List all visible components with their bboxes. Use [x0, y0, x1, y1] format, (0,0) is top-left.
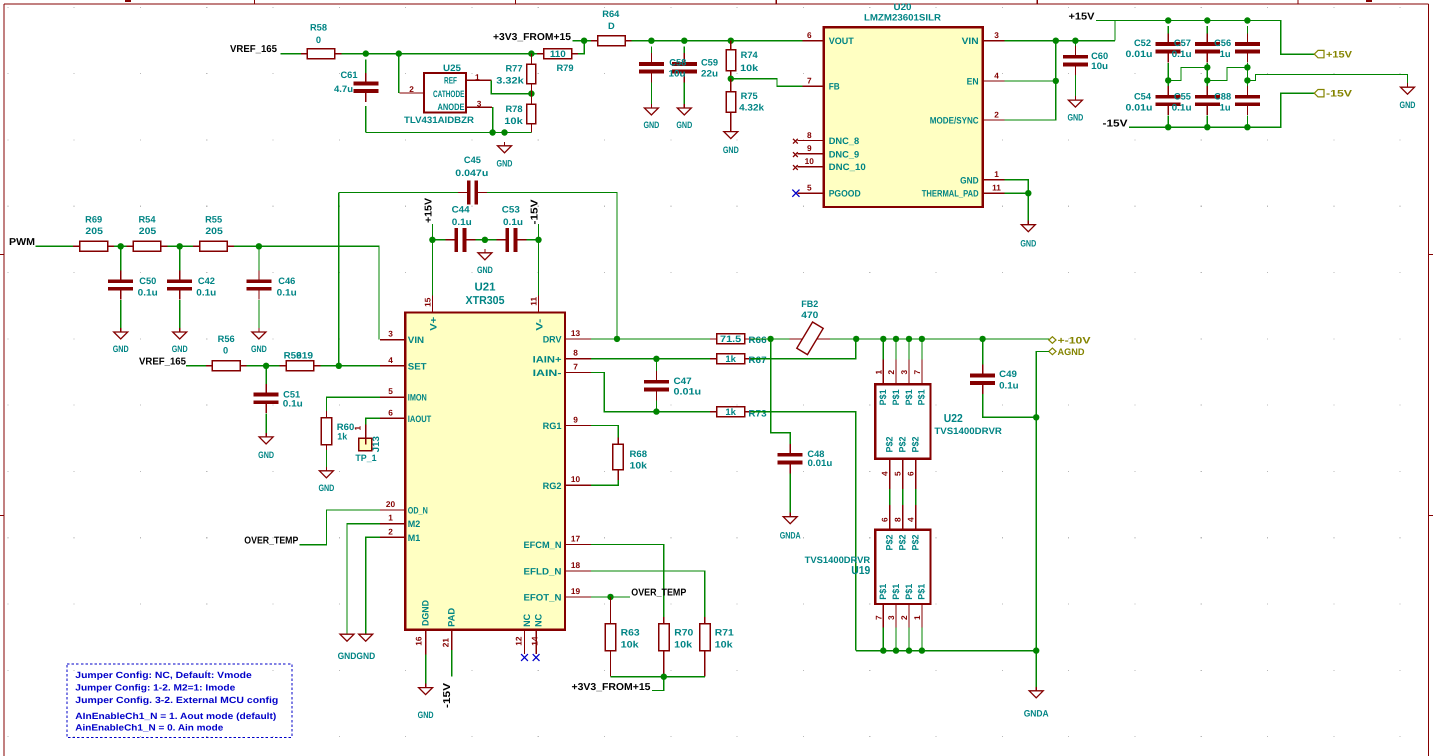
wire C53 out [527, 239, 539, 241]
wire FB wire [731, 79, 803, 87]
svg-text:0.047u: 0.047u [455, 168, 488, 178]
svg-text:9: 9 [807, 143, 812, 153]
svg-text:TVS1400DRVR: TVS1400DRVR [934, 426, 1002, 436]
wire R79 up to 3V3 [578, 40, 584, 54]
wire gnd z1 [1168, 67, 1207, 80]
svg-text:+15V: +15V [423, 198, 434, 223]
svg-text:0.1u: 0.1u [999, 380, 1019, 390]
svg-text:0.01u: 0.01u [1126, 49, 1153, 59]
node DRV node [614, 336, 620, 342]
wire C44-C53 [476, 239, 497, 241]
U21 pin 18 EFLD_N [565, 570, 591, 572]
svg-text:2: 2 [899, 615, 909, 620]
hier label AGND [1049, 347, 1085, 358]
svg-text:C61: C61 [340, 70, 357, 80]
wire +15V drop to VIN [1114, 21, 1116, 41]
no-connect DNC_9 [793, 152, 798, 157]
no-connect DNC_8 [793, 139, 798, 144]
node tvs n4 [919, 336, 925, 342]
wire EFCM_N to R70 [591, 544, 664, 617]
wire GND pin down [1005, 180, 1029, 193]
resistor R58 [301, 49, 342, 59]
U19 top pin 4 [915, 505, 917, 530]
ground GND [723, 128, 739, 156]
svg-text:15: 15 [423, 297, 433, 307]
wire C46 to gnd [258, 300, 260, 332]
wire R60 to gnd [325, 450, 327, 471]
wire DGND to gnd [425, 655, 427, 688]
svg-text:5: 5 [807, 183, 812, 193]
svg-text:3: 3 [886, 615, 896, 620]
svg-text:IAOUT: IAOUT [408, 414, 432, 424]
wire IAOUT to TP_1 [366, 418, 380, 424]
svg-text:GND: GND [960, 175, 979, 185]
wire +15V to C52 [1167, 26, 1169, 34]
svg-text:J13: J13 [371, 436, 381, 452]
U20 pin 9 DNC_9 [797, 153, 823, 155]
U21 pin 16 DGND [425, 630, 427, 655]
svg-text:+15V: +15V [1069, 12, 1095, 23]
svg-text:0.01u: 0.01u [808, 458, 833, 468]
svg-text:R55: R55 [205, 215, 222, 225]
wire R55 to VIN pin [234, 246, 379, 339]
node C54 bot [1165, 124, 1171, 130]
U21 pin 5 IMON [380, 396, 405, 398]
svg-text:C49: C49 [999, 369, 1017, 379]
U21 pin 3 VIN [380, 339, 405, 341]
ferrite bead FB2 [790, 322, 830, 355]
svg-text:P$1: P$1 [891, 584, 901, 600]
svg-text:U25: U25 [443, 63, 461, 73]
svg-text:10k: 10k [621, 640, 640, 650]
U21 pin 14 NC [535, 630, 537, 654]
resistor R71 [700, 617, 710, 677]
svg-text:VIN: VIN [962, 36, 979, 46]
wire VREF to R56 [186, 365, 206, 367]
U20 pin 7 FB [802, 85, 824, 87]
svg-text:GND: GND [497, 159, 513, 169]
wire THERMAL_PAD down [1005, 193, 1029, 225]
svg-text:-15V: -15V [1326, 89, 1353, 100]
svg-text:XTR305: XTR305 [466, 295, 506, 307]
U21 pin 9 RG1 [565, 425, 591, 427]
no-connect PGOOD [792, 190, 799, 197]
capacitor C55 [1195, 86, 1220, 115]
wire DRV to R66 [591, 338, 710, 340]
svg-text:MODE/SYNC: MODE/SYNC [930, 116, 979, 126]
node +3V3 node [661, 674, 667, 680]
node R67 node [853, 336, 859, 342]
test point TP_1 (J13) [359, 425, 372, 451]
wire C59 to gnd [683, 83, 685, 105]
svg-text:1: 1 [912, 615, 922, 620]
svg-text:GND: GND [251, 344, 267, 354]
svg-text:0.1u: 0.1u [1172, 102, 1192, 112]
wire C47 to node [655, 401, 657, 412]
svg-text:C54: C54 [1134, 91, 1152, 101]
node anode join [489, 129, 495, 135]
wire IMON to R60 [326, 397, 379, 411]
svg-text:-15V: -15V [442, 683, 453, 708]
svg-text:1u: 1u [1220, 49, 1231, 59]
wire VREF_165 to R58 [281, 53, 301, 55]
svg-text:0.1u: 0.1u [283, 399, 303, 409]
resistor R74 [726, 41, 736, 79]
wire AGND vertical [1036, 351, 1049, 649]
svg-text:4.32k: 4.32k [739, 103, 765, 113]
U21 pin 13 DRV [565, 338, 591, 340]
wire to C44 [432, 239, 445, 241]
wire rail to C59 [683, 47, 685, 53]
svg-text:GND: GND [418, 710, 434, 720]
regulator U20 [824, 27, 983, 207]
hier label +-10V [1049, 335, 1092, 346]
svg-text:VIN: VIN [408, 335, 425, 345]
resistor R56 [206, 361, 247, 371]
U21 pin 7 IAIN- [565, 372, 591, 374]
U19 top pin 8 [902, 505, 904, 530]
svg-text:5: 5 [388, 386, 393, 396]
svg-text:GND: GND [113, 344, 129, 354]
svg-text:P$1: P$1 [891, 389, 901, 405]
wire C45 left vertical [338, 193, 340, 366]
node C42 tap [177, 243, 183, 249]
svg-text:ANODE: ANODE [438, 102, 465, 112]
U22 top pin 7 [921, 339, 923, 360]
node EN node [1053, 78, 1059, 84]
wire V+ down [431, 240, 433, 296]
capacitor C51 [254, 384, 279, 413]
node R77 top tap [528, 50, 534, 56]
svg-text:RG2: RG2 [543, 481, 562, 491]
svg-text:GND: GND [676, 120, 692, 130]
svg-text:V+: V+ [428, 316, 438, 331]
wire tap to C46 [258, 246, 260, 270]
svg-text:EFCM_N: EFCM_N [524, 540, 562, 550]
svg-text:16: 16 [414, 636, 424, 646]
U21 pin 11 V- [538, 296, 540, 313]
svg-text:10: 10 [571, 474, 581, 484]
wire R64 to VOUT [632, 40, 803, 42]
node SET node [336, 363, 342, 369]
svg-text:P$2: P$2 [897, 437, 907, 453]
svg-text:Jumper Config: NC, Default: Vm: Jumper Config: NC, Default: Vmode [75, 670, 252, 680]
svg-text:2: 2 [388, 526, 393, 536]
ground GND [497, 142, 513, 169]
svg-text:U22: U22 [944, 413, 963, 425]
ground GND [251, 328, 267, 354]
U21 pin 8 IAIN+ [565, 358, 591, 360]
svg-text:VOUT: VOUT [829, 36, 854, 46]
wire label to node [652, 677, 664, 691]
svg-text:17: 17 [571, 533, 581, 543]
svg-text:0.1u: 0.1u [138, 288, 158, 298]
capacitor C60 [1063, 46, 1088, 75]
node VIN/EN column [1053, 38, 1059, 44]
svg-text:GND: GND [643, 120, 659, 130]
wire tap to C50 [120, 246, 122, 270]
ground GND [258, 433, 274, 460]
svg-text:P$1: P$1 [904, 584, 914, 600]
svg-text:REF: REF [444, 75, 457, 85]
capacitor C50 [108, 270, 133, 299]
svg-text:M1: M1 [408, 533, 421, 543]
capacitor C44 [445, 228, 475, 252]
svg-text:0.1u: 0.1u [503, 217, 523, 227]
U21 pin 6 IAOUT [380, 417, 405, 419]
svg-text:SET: SET [408, 361, 427, 371]
wire C50 to gnd [120, 300, 122, 332]
wire EN wire [1005, 80, 1056, 82]
svg-text:D: D [608, 21, 615, 31]
wire C88 top [1246, 67, 1248, 86]
resistor R59 [280, 361, 321, 371]
svg-text:C56: C56 [1214, 38, 1231, 48]
svg-text:0.1u: 0.1u [277, 288, 297, 298]
U21 pin 21 PAD [451, 630, 453, 650]
svg-text:U21: U21 [475, 281, 497, 293]
node C59 tap [681, 38, 687, 44]
svg-text:R71: R71 [715, 628, 734, 638]
wire IAIN+ to R67 [591, 358, 710, 360]
svg-text:P$2: P$2 [897, 535, 907, 551]
svg-text:0.1u: 0.1u [1172, 49, 1192, 59]
svg-text:P$2: P$2 [885, 535, 895, 551]
U22 bottom pin 5 [902, 459, 904, 489]
capacitor C54 [1156, 86, 1181, 115]
wire rail to C58 [650, 47, 652, 53]
ground GNDA [780, 513, 801, 541]
svg-text:21: 21 [440, 638, 450, 648]
svg-text:NC: NC [534, 614, 544, 627]
svg-text:R64: R64 [602, 9, 620, 19]
node C61 tap [363, 50, 369, 56]
svg-text:1u: 1u [1220, 102, 1231, 112]
wire U25 gnd rail [366, 132, 532, 134]
svg-text:1: 1 [352, 426, 362, 431]
svg-text:10k: 10k [715, 640, 734, 650]
svg-text:3: 3 [388, 329, 393, 339]
svg-text:10: 10 [805, 156, 815, 166]
svg-text:C59: C59 [701, 58, 718, 68]
wire 3V3 label to R64 [573, 40, 591, 42]
svg-text:GND: GND [318, 483, 334, 493]
wire ANODE down [492, 107, 494, 132]
svg-text:IMON: IMON [408, 393, 427, 403]
svg-text:P$2: P$2 [885, 437, 895, 453]
svg-text:C45: C45 [464, 155, 481, 165]
node C48 branch node [767, 336, 773, 342]
node C51 tap [263, 363, 269, 369]
svg-text:1: 1 [475, 72, 480, 82]
wire C54 top [1167, 80, 1169, 86]
svg-text:U19: U19 [851, 565, 870, 577]
resistor R78 [527, 94, 536, 133]
node V- node [535, 237, 541, 243]
U21 pin 20 OD_N [380, 509, 405, 511]
svg-text:205: 205 [205, 226, 223, 236]
wire EFOT_N wire [591, 596, 630, 598]
capacitor C58 [639, 53, 664, 82]
svg-text:VREF_165: VREF_165 [230, 44, 277, 55]
U21 pin 15 V+ [431, 296, 433, 313]
svg-text:U20: U20 [894, 2, 912, 12]
svg-text:GND: GND [1020, 239, 1036, 249]
wire C45 wire right down [487, 193, 617, 339]
node tvs n1 [880, 336, 886, 342]
node agnd tap [1033, 414, 1039, 420]
svg-text:110: 110 [550, 49, 566, 59]
U19 top pin 6 [889, 505, 891, 530]
svg-text:OD_N: OD_N [408, 506, 428, 516]
svg-text:10u: 10u [1091, 61, 1108, 71]
svg-text:C88: C88 [1214, 91, 1231, 101]
node C60 tap [1072, 38, 1078, 44]
U20 pin 1 GND [983, 179, 1005, 181]
svg-text:6: 6 [388, 407, 393, 417]
svg-text:11: 11 [992, 183, 1001, 193]
node t1 [880, 647, 886, 653]
svg-text:OVER_TEMP: OVER_TEMP [631, 588, 686, 599]
tvs U22 [875, 384, 930, 458]
svg-text:GND: GND [258, 450, 274, 460]
capacitor C57 [1195, 33, 1220, 62]
node agnd join [1033, 647, 1039, 653]
wire -15V rail [1129, 93, 1314, 127]
node EFOT node [607, 594, 613, 600]
svg-text:205: 205 [85, 226, 103, 236]
svg-text:V-: V- [535, 319, 545, 331]
svg-text:GNDA: GNDA [1024, 708, 1049, 718]
svg-text:71.5: 71.5 [720, 334, 741, 344]
svg-text:C57: C57 [1174, 38, 1191, 48]
svg-text:+3V3_FROM+15: +3V3_FROM+15 [493, 32, 571, 43]
wire C55 to -15V [1206, 115, 1208, 127]
svg-text:9: 9 [573, 414, 578, 424]
wire branch to C48 [771, 339, 791, 445]
svg-text:AInEnableCh1_N = 1. Aout mode: AInEnableCh1_N = 1. Aout mode (default) [75, 711, 276, 721]
wire tap to C42 [179, 246, 181, 270]
ground GND [1020, 221, 1036, 249]
U22 top pin 2 [895, 339, 897, 360]
svg-text:R77: R77 [505, 63, 522, 73]
svg-text:C46: C46 [278, 276, 295, 286]
U21 pin 4 SET [380, 365, 405, 367]
wire CATHODE wire [398, 54, 400, 93]
svg-text:GND: GND [723, 145, 739, 155]
svg-text:GND: GND [1400, 100, 1416, 110]
svg-text:TVS1400DRVR: TVS1400DRVR [805, 555, 871, 565]
svg-text:8: 8 [893, 517, 903, 522]
svg-text:18: 18 [571, 560, 581, 570]
U22 bottom pin 6 [915, 459, 917, 489]
resistor R69 [73, 241, 114, 251]
svg-text:7: 7 [912, 370, 922, 375]
resistor R55 [193, 241, 234, 251]
wire PAD to -15V [451, 650, 453, 677]
svg-text:GNDA: GNDA [780, 531, 801, 541]
U21 pin 2 M1 [380, 536, 405, 538]
svg-text:8: 8 [807, 130, 812, 140]
svg-text:205: 205 [139, 226, 157, 236]
svg-text:470: 470 [801, 310, 818, 320]
wire C54 to -15V [1167, 115, 1169, 127]
wire down to GNDA [1035, 651, 1037, 691]
svg-text:R67: R67 [748, 355, 766, 365]
ground M1 [359, 634, 373, 641]
resistor R75 [726, 79, 736, 132]
svg-text:1k: 1k [337, 432, 348, 442]
resistor R63 [605, 597, 615, 677]
no-connect DNC_10 [793, 165, 798, 170]
node gnd mid a [1204, 64, 1210, 70]
svg-text:4: 4 [906, 517, 916, 522]
svg-text:GND: GND [1067, 113, 1083, 123]
U20 pin 10 DNC_10 [797, 166, 823, 168]
wire node to C47 [655, 359, 657, 371]
wire VIN rail [1005, 40, 1115, 42]
ground GND [1067, 96, 1083, 123]
svg-text:R78: R78 [505, 104, 522, 114]
node C56 top [1244, 17, 1250, 23]
wire EFLD_N to R71 [591, 571, 705, 617]
resistor R73 [710, 407, 751, 417]
svg-text:TLV431AIDBZR: TLV431AIDBZR [404, 115, 474, 125]
svg-text:2: 2 [409, 84, 414, 94]
capacitor C42 [167, 270, 192, 299]
U19 bottom pin 1 [921, 604, 923, 627]
svg-text:GND: GND [477, 265, 493, 275]
node C47 bottom node [653, 408, 659, 414]
U20 pin 5 PGOOD [797, 192, 823, 194]
svg-text:GND: GND [172, 344, 188, 354]
op-amp U25 [399, 73, 492, 113]
node U20 gnd node [1025, 190, 1031, 196]
svg-text:AGND: AGND [1058, 347, 1085, 358]
svg-text:C44: C44 [452, 204, 471, 214]
ground GND [318, 467, 334, 493]
node gnd tap [501, 129, 507, 135]
svg-text:2: 2 [994, 109, 999, 119]
resistor R66 [710, 334, 751, 344]
svg-text:C52: C52 [1134, 38, 1151, 48]
node dec gnd node [482, 237, 488, 243]
note jumper config box [67, 664, 292, 738]
ground GND [418, 684, 434, 720]
svg-text:AinEnableCh1_N = 0. Ain mode: AinEnableCh1_N = 0. Ain mode [75, 722, 223, 732]
wire -15V drop [538, 224, 540, 240]
svg-text:DNC_9: DNC_9 [829, 149, 860, 159]
svg-text:GND: GND [338, 651, 357, 661]
svg-text:6: 6 [906, 471, 916, 476]
resistor R54 [126, 241, 167, 251]
resistor R68 [613, 438, 623, 481]
capacitor C53 [496, 228, 526, 252]
svg-text:C47: C47 [674, 376, 692, 386]
svg-text:R75: R75 [741, 91, 758, 101]
U22 top pin 3 [908, 339, 910, 360]
svg-text:4: 4 [388, 355, 393, 365]
node FB node [728, 76, 734, 82]
node C46 tap [256, 243, 262, 249]
U20 pin 2 MODE/SYNC [983, 119, 1005, 121]
svg-text:3.32k: 3.32k [496, 75, 524, 85]
svg-text:Jumper Config. 3-2. External M: Jumper Config. 3-2. External MCU config [75, 695, 278, 705]
resistor R60 [321, 411, 331, 450]
svg-text:0: 0 [223, 345, 228, 355]
U20 pin 4 EN [983, 80, 1005, 82]
svg-text:-15V: -15V [1103, 119, 1128, 130]
